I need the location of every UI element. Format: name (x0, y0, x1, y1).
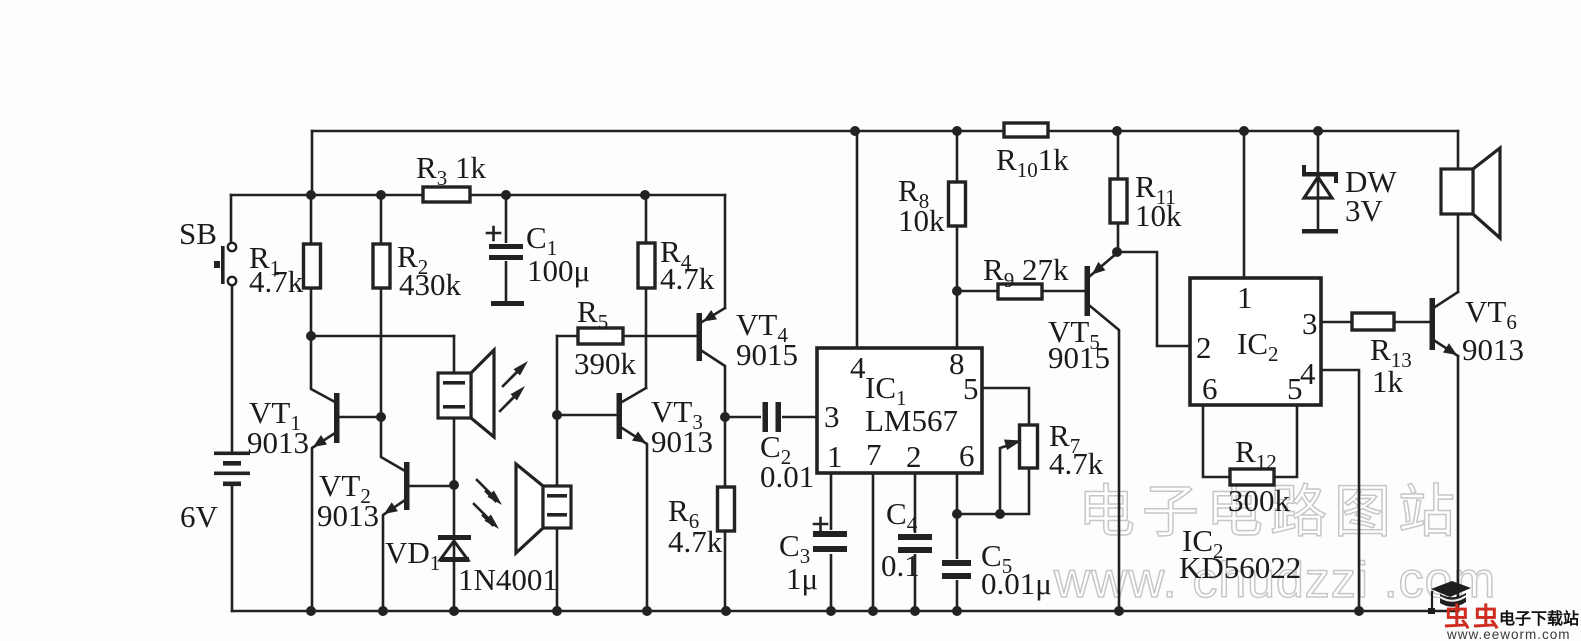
wire R5 row to VT4 base (557, 335, 697, 338)
resistor R6 (718, 487, 735, 531)
wire IC2 pin1 (1243, 131, 1246, 278)
svg-text:4: 4 (1300, 356, 1316, 391)
speaker 3 output (1441, 148, 1500, 238)
speaker 2 receive (516, 464, 571, 553)
svg-text:9015: 9015 (1048, 340, 1110, 375)
svg-text:KD56022: KD56022 (1179, 550, 1301, 585)
svg-text:电子下载站: 电子下载站 (1499, 609, 1579, 628)
svg-text:430k: 430k (399, 267, 462, 302)
svg-text:0.01μ: 0.01μ (981, 566, 1052, 601)
wire supply row y195 (231, 194, 725, 197)
wire VT1 emitter (312, 433, 335, 611)
R7 wiper arrowhead (1004, 440, 1022, 451)
svg-text:1N4001: 1N4001 (458, 562, 558, 597)
svg-text:3V: 3V (1345, 193, 1384, 228)
wire top-left drop (311, 131, 314, 195)
logo graduation cap (1428, 581, 1471, 614)
capacitor C1 (487, 227, 524, 306)
transistor Q VT4 (697, 310, 718, 361)
svg-text:9013: 9013 (247, 425, 309, 460)
wire right drop to speaker (1457, 131, 1460, 292)
svg-text:6: 6 (959, 438, 975, 473)
wire VT4 emitter diag (702, 308, 725, 322)
wire R7 wiper (1000, 444, 1012, 514)
svg-text:SB: SB (179, 216, 217, 251)
resistor R8 (949, 182, 966, 226)
wire VT5 collector (1090, 306, 1119, 611)
wire VT6 collector diag (1435, 292, 1458, 307)
wire IC1 pin6 / C5 (956, 473, 959, 611)
svg-text:9013: 9013 (651, 424, 713, 459)
resistor R13 (1352, 313, 1394, 330)
svg-text:9015: 9015 (736, 337, 798, 372)
wire VT3 collector (622, 388, 646, 402)
capacitor C3 (812, 518, 849, 554)
transistor Q VT3 (617, 393, 647, 443)
diode VD1 (438, 535, 471, 562)
svg-text:LM567: LM567 (865, 403, 958, 438)
wire VT4 collector (702, 351, 725, 417)
svg-text:0.1: 0.1 (881, 548, 920, 583)
svg-text:4.7k: 4.7k (660, 261, 715, 296)
wire ground rail (232, 610, 1458, 613)
svg-text:5: 5 (963, 371, 979, 406)
wire R11 branch (1117, 131, 1120, 252)
wire C2 row (725, 416, 817, 419)
wire bias row y336 (311, 335, 454, 338)
svg-text:4: 4 (850, 350, 866, 385)
wire battery to rail (231, 486, 234, 611)
wire IC1 pin8 / R8 (956, 131, 959, 348)
wire C1 branch (505, 195, 508, 301)
resistor R3 (423, 187, 470, 202)
wire VT3 base (557, 414, 617, 417)
wire IC1 pin1 / C3 (830, 473, 833, 611)
wire VT2 emitter (383, 500, 405, 611)
svg-text:7: 7 (866, 437, 882, 472)
wire DW branch (1317, 131, 1320, 229)
wire R7 bottom (957, 468, 1029, 514)
svg-text:1k: 1k (1372, 364, 1404, 399)
wire VT1 collector (311, 336, 335, 402)
resistor R7 (1020, 425, 1038, 468)
wire VT1 base (340, 416, 381, 419)
wire R6 branch (724, 417, 727, 611)
wire IC1 pin2 / C4 (914, 473, 917, 611)
svg-text:2: 2 (1196, 330, 1212, 365)
wire VT2 collector (381, 417, 405, 471)
svg-text:www.eeworm.com: www.eeworm.com (1446, 627, 1571, 641)
transistor Q VT5 (1085, 262, 1106, 316)
capacitor C5 (941, 559, 973, 580)
svg-text:6: 6 (1202, 371, 1218, 406)
wire VT2 base (410, 485, 454, 488)
wire IC2 pin5 to R12 (1274, 405, 1297, 477)
resistor R1 (304, 244, 321, 288)
wire IC1 pin7 (872, 473, 875, 611)
svg-text:4.7k: 4.7k (1049, 446, 1104, 481)
wire R4 branch (645, 195, 648, 388)
wire R2 branch (380, 195, 383, 417)
wire IC1 pin5 to R7 (982, 388, 1029, 425)
wire IC1 pin4 (856, 131, 859, 348)
resistor R4 (638, 243, 655, 288)
node dots supply row (306, 126, 1364, 616)
wire IC2 pin6 to R12 (1203, 405, 1230, 477)
svg-text:R9 27k: R9 27k (983, 252, 1069, 292)
svg-text:1: 1 (827, 439, 843, 474)
svg-text:6V: 6V (180, 499, 219, 534)
op-amp IC2 box (1190, 278, 1321, 405)
svg-text:9013: 9013 (1462, 332, 1524, 367)
wire IC2 pin4 (1321, 370, 1359, 611)
svg-text:100μ: 100μ (527, 253, 590, 288)
wire VT3 emitter (622, 428, 647, 611)
svg-text:9013: 9013 (317, 498, 379, 533)
wire right rail up (1457, 356, 1460, 611)
wire IC2 pin3 / R13 (1321, 321, 1430, 324)
svg-text:10k: 10k (898, 203, 945, 238)
switch SB (214, 243, 236, 285)
op-amp IC1 box (817, 348, 982, 473)
wire VT5 to IC2 pin2 (1118, 252, 1190, 346)
svg-text:10k: 10k (1135, 198, 1182, 233)
svg-text:R3 1k: R3 1k (416, 150, 486, 190)
svg-text:1μ: 1μ (786, 561, 818, 596)
resistor R5 (578, 328, 623, 344)
svg-text:1: 1 (1237, 280, 1253, 315)
zener DW (1302, 165, 1338, 234)
svg-text:3: 3 (824, 399, 840, 434)
transistor Q VT1 (313, 393, 340, 447)
capacitor C4 (897, 533, 934, 554)
resistor R10 (1004, 123, 1048, 137)
transistor Q VT2 (384, 462, 410, 514)
wire SB top (230, 195, 233, 243)
wire VT4 emitter vertical (724, 195, 727, 308)
wire R9 row (957, 290, 1085, 293)
wire speaker1/VD1 column (453, 336, 456, 611)
speaker 1 waves (500, 361, 528, 411)
wire top rail (312, 130, 1458, 133)
transistor Q VT6 (1430, 298, 1458, 355)
svg-text:2: 2 (906, 439, 922, 474)
wire R5 column (556, 336, 559, 611)
svg-text:3: 3 (1302, 306, 1318, 341)
svg-text:4.7k: 4.7k (668, 524, 723, 559)
wire R1 branch (310, 195, 313, 336)
resistor R9 (998, 284, 1042, 299)
resistor R12 (1230, 469, 1274, 485)
svg-text:300k: 300k (1228, 483, 1291, 518)
resistor R2 (373, 244, 390, 288)
resistor R11 (1110, 179, 1127, 223)
capacitor C2 (761, 401, 782, 433)
wire VT5 emitter diag (1090, 253, 1117, 276)
svg-text:390k: 390k (574, 346, 637, 381)
speaker 1 transmit (438, 350, 494, 437)
speaker 2 waves (474, 480, 502, 529)
wire VT6 emitter diag (1435, 341, 1458, 356)
wire SB to battery (231, 285, 234, 452)
svg-text:4.7k: 4.7k (249, 264, 304, 299)
battery 6V (214, 452, 250, 487)
svg-text:0.01: 0.01 (760, 459, 814, 494)
